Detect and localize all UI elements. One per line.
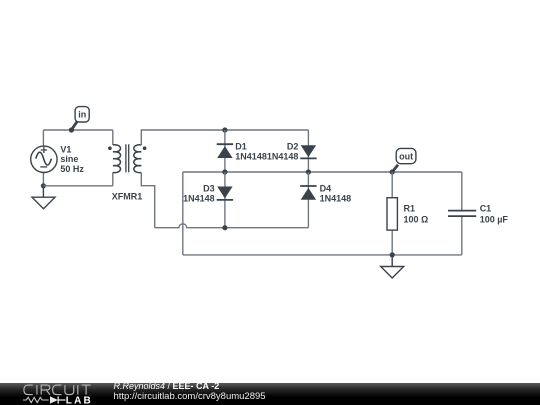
svg-text:100 µF: 100 µF xyxy=(480,215,509,225)
label D4 1N4148 xyxy=(320,184,352,204)
footer bar xyxy=(0,383,540,405)
svg-text:D2: D2 xyxy=(287,142,299,152)
footer title text xyxy=(114,381,220,391)
label V1 sine 50 Hz xyxy=(60,145,84,174)
CircuitLab logo xyxy=(0,383,110,405)
transformer XFMR1 xyxy=(108,130,146,186)
wire: secondary bottom to bridge bottom with hop over left leg xyxy=(155,224,309,228)
label D3 1N4148 xyxy=(183,184,215,204)
wire: XFMR secondary bottom jog down xyxy=(141,172,154,227)
diode D3 (pointing down) xyxy=(217,172,233,228)
diode D1 (pointing up) xyxy=(217,130,233,172)
wire net in: V1 top to XFMR primary top xyxy=(43,129,112,131)
svg-text:100 Ω: 100 Ω xyxy=(404,215,429,225)
capacitor C1 xyxy=(448,172,476,255)
node out junction xyxy=(390,169,395,174)
svg-text:C1: C1 xyxy=(480,204,492,214)
svg-text:1N4148: 1N4148 xyxy=(267,151,299,161)
svg-text:D1: D1 xyxy=(235,142,247,152)
label R1 100 Ohm xyxy=(404,204,429,225)
flag in xyxy=(71,107,89,130)
node R1 bottom ground junction xyxy=(390,252,395,257)
node in-flag junction xyxy=(69,127,74,132)
wire: bridge left leg xyxy=(182,172,184,255)
svg-text:sine: sine xyxy=(60,154,78,164)
node V1 ground junction xyxy=(41,183,46,188)
wire net: V1 bottom to XFMR primary bottom xyxy=(43,185,112,187)
ground at output xyxy=(381,255,404,278)
svg-text:1N4148: 1N4148 xyxy=(235,151,267,161)
resistor R1 xyxy=(387,172,397,255)
svg-text:R1: R1 xyxy=(404,204,416,214)
svg-text:XFMR1: XFMR1 xyxy=(112,191,143,201)
label C1 100 uF xyxy=(480,204,509,225)
diode D4 (pointing up) xyxy=(300,172,316,228)
node D1 bottom xyxy=(222,169,227,174)
wire: XFMR secondary top to bridge top xyxy=(141,130,308,145)
node D2 bottom xyxy=(306,169,311,174)
svg-text:D4: D4 xyxy=(320,184,332,194)
svg-text:50 Hz: 50 Hz xyxy=(60,164,84,174)
svg-text:D3: D3 xyxy=(203,184,215,194)
wire: bottom rail xyxy=(183,254,462,256)
diode D2 (pointing down) xyxy=(300,130,316,172)
svg-text:1N4148: 1N4148 xyxy=(183,193,215,203)
ground at V1 xyxy=(32,186,55,209)
wire net out: bridge mid rail to C1 xyxy=(183,171,462,173)
node D1 top xyxy=(222,127,227,132)
svg-text:1N4148: 1N4148 xyxy=(320,193,352,203)
node D3 bottom xyxy=(222,225,227,230)
voltage source V1 xyxy=(31,130,57,186)
svg-text:in: in xyxy=(78,109,86,119)
svg-text:out: out xyxy=(399,152,413,162)
svg-text:LAB: LAB xyxy=(66,395,93,405)
footer url xyxy=(114,391,266,402)
svg-text:V1: V1 xyxy=(60,145,71,155)
label D2 1N4148 xyxy=(267,142,299,162)
label D1 1N4148 xyxy=(235,142,267,162)
flag out xyxy=(392,148,416,172)
